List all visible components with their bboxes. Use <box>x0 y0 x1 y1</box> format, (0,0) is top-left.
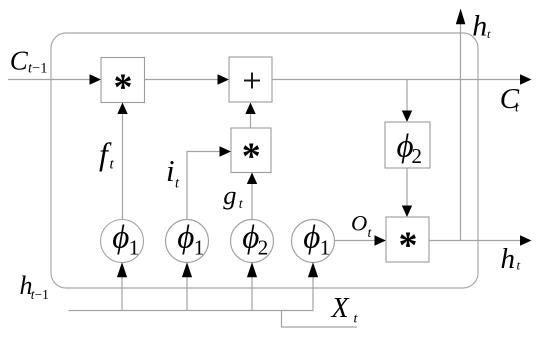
svg-text:t: t <box>354 312 359 327</box>
svg-text:t: t <box>515 101 520 116</box>
wire gate stem 1 <box>121 277 123 311</box>
svg-text:i: i <box>166 153 175 188</box>
wire phi2 box down to output multiply <box>406 168 408 206</box>
svg-text:h: h <box>501 243 516 275</box>
arrow into B5 top <box>402 206 412 218</box>
arrow into B5 left <box>375 235 387 245</box>
arrow into B1 bottom <box>117 103 127 115</box>
wire gate stem 2 <box>186 277 188 311</box>
plus box B2 <box>229 57 272 102</box>
wire B3 up to B2 <box>250 113 252 128</box>
wire B1 to plus box <box>145 79 219 81</box>
svg-text:*: * <box>399 225 418 267</box>
svg-text:ϕ: ϕ <box>112 220 129 256</box>
svg-text:1: 1 <box>320 236 331 260</box>
svg-text:t: t <box>239 197 244 212</box>
svg-text:ϕ: ϕ <box>177 220 194 256</box>
svg-text:X: X <box>331 293 350 324</box>
svg-text:2: 2 <box>258 236 269 260</box>
wire f gate up to B1 <box>122 113 124 220</box>
svg-text:t: t <box>110 157 115 173</box>
mid multiply box B3 <box>231 128 271 173</box>
svg-text:O: O <box>351 211 367 236</box>
arrow into B3 bottom <box>247 173 257 185</box>
wire gate stem 3 <box>251 277 253 311</box>
svg-text:t: t <box>175 176 180 192</box>
svg-text:t−1: t−1 <box>28 60 47 76</box>
circle gate phi2 (candidate) <box>231 220 274 263</box>
arrow into circle 3 <box>247 262 257 277</box>
svg-text:t−1: t−1 <box>31 287 49 302</box>
svg-text:t: t <box>517 258 521 273</box>
wire cell state down to phi2 box <box>406 80 408 111</box>
wire o gate to output multiply box <box>335 240 376 242</box>
wire xt feed step <box>282 311 358 328</box>
arrow into B4 top <box>402 111 412 123</box>
circle gate phi1 (output) <box>292 220 335 263</box>
svg-text:t: t <box>368 226 373 241</box>
arrow into circle 4 <box>308 262 318 277</box>
wire plus box to Ct output <box>272 79 521 81</box>
multiply box B1 <box>101 58 145 103</box>
arrow into B3 left <box>220 146 232 156</box>
arrow into circle 1 <box>117 262 127 277</box>
arrow ht output right <box>520 235 532 245</box>
svg-text:1: 1 <box>129 236 140 260</box>
wire ht riser to top <box>460 24 462 241</box>
output multiply box B5 <box>386 217 429 262</box>
phi2 box B4 <box>385 122 430 168</box>
arrow into circle 2 <box>182 262 192 277</box>
arrow ht output top <box>456 9 466 25</box>
svg-text:h: h <box>472 10 487 43</box>
wire gate stem 4 <box>312 277 314 311</box>
cell body rounded rectangle <box>51 33 478 288</box>
svg-text:1: 1 <box>194 236 205 260</box>
circle gate phi1 (input) <box>166 220 209 263</box>
arrow into plus box B2 <box>218 74 230 84</box>
wire Ct-1 input to multiply box <box>8 79 90 81</box>
plus glyph in B2 <box>244 73 260 89</box>
svg-text:C: C <box>10 46 29 76</box>
arrow into B2 bottom <box>245 103 255 115</box>
arrow into multiply box B1 <box>90 74 102 84</box>
wire xt rail <box>69 310 314 312</box>
svg-text:g: g <box>223 180 236 210</box>
svg-text:*: * <box>114 66 133 108</box>
wire i gate up and right to mid multiply box <box>187 152 220 221</box>
svg-text:ϕ: ϕ <box>303 220 320 256</box>
circle gate phi1 (forget) <box>101 220 144 263</box>
wire B5 to ht output right <box>429 240 521 242</box>
svg-text:*: * <box>242 136 261 178</box>
wire g gate up to B3 <box>251 183 253 220</box>
svg-text:2: 2 <box>412 144 423 168</box>
svg-text:t: t <box>487 27 491 41</box>
arrow Ct output <box>520 74 532 84</box>
